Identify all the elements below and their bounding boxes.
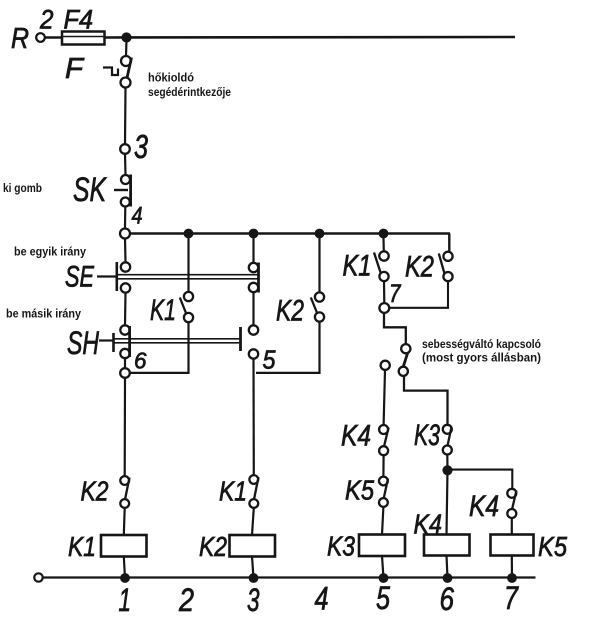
coil K5 (491, 531, 568, 562)
svg-text:2: 2 (178, 582, 194, 618)
junction dot bottom col7 (508, 574, 517, 583)
svg-text:6: 6 (440, 581, 455, 617)
wire bus to contact K1 col5 (382, 238, 384, 251)
contact K1 col3 (219, 475, 259, 508)
annotation sebessegvalto kapcsolo (422, 339, 541, 365)
wire coil K5 to bottom rail (511, 556, 513, 579)
wire coil K2 to bottom rail (252, 557, 254, 579)
svg-text:5: 5 (376, 580, 390, 616)
svg-text:K1: K1 (219, 476, 247, 507)
svg-text:K5: K5 (345, 475, 374, 506)
wire coil K1 to bottom rail (124, 557, 125, 579)
svg-text:K2: K2 (81, 476, 109, 507)
svg-text:SK: SK (73, 171, 107, 209)
svg-text:4: 4 (315, 581, 329, 617)
wire bus corner down to contact K2 col6 (448, 234, 450, 252)
wire selector left position to contact K4 col5 (384, 370, 385, 425)
wire contact K2 col1 to coil K1 (123, 508, 126, 535)
svg-text:6: 6 (134, 348, 147, 374)
node 4 (120, 203, 143, 239)
fuse F4 (62, 5, 105, 45)
svg-text:1: 1 (119, 582, 132, 618)
svg-text:segédérintkezője: segédérintkezője (148, 87, 231, 99)
wire contact K1 col3 to coil K2 (252, 508, 254, 535)
contact K2 col6 (405, 251, 453, 284)
wire node 5 down to contact K1 col3 (252, 359, 255, 475)
svg-text:5: 5 (263, 345, 276, 375)
junction dot bottom col3 (249, 574, 258, 583)
coil K1 (68, 531, 147, 562)
svg-text:K4: K4 (469, 490, 499, 523)
contact K1 col2 (150, 292, 193, 327)
wire SE col3 to SH col3 (252, 292, 254, 325)
junction dot top rail / F branch (122, 33, 131, 42)
wire junction col6 to coil K4 (447, 470, 448, 534)
contact K3 col6 (414, 419, 452, 455)
thermal overload contact F (65, 53, 132, 88)
svg-text:R: R (11, 23, 29, 55)
node 3 (120, 128, 148, 165)
svg-text:7: 7 (389, 280, 401, 308)
junction dot bus col3 (249, 229, 258, 238)
svg-text:K3: K3 (414, 419, 440, 452)
svg-text:K1: K1 (150, 294, 176, 327)
terminal bottom rail (34, 573, 42, 581)
junction dot bus col5 (379, 229, 388, 238)
junction dot bottom col5 (379, 574, 388, 583)
svg-text:SH: SH (67, 325, 100, 361)
wire contact K4 to contact K5 col5 (382, 455, 384, 476)
wire R to fuse (45, 36, 62, 38)
svg-text:be másik irány: be másik irány (6, 309, 82, 321)
node 6 (120, 348, 146, 378)
junction dot col6 (443, 466, 452, 475)
wire coil K3 to bottom rail (382, 556, 384, 578)
svg-text:2: 2 (39, 5, 53, 35)
svg-text:ki gomb: ki gomb (3, 183, 42, 195)
contact K5 col5 (345, 475, 388, 507)
svg-text:K2: K2 (199, 531, 227, 562)
wire coil K4 to bottom rail (447, 556, 448, 579)
wire contact K4 col7 to coil K5 (511, 518, 513, 535)
svg-text:be egyik irány: be egyik irány (14, 247, 87, 259)
contact K1 col5 (343, 250, 389, 283)
junction dot bus col2 (184, 229, 193, 238)
svg-text:(most gyors állásban): (most gyors állásban) (422, 353, 541, 365)
svg-text:K3: K3 (327, 531, 355, 562)
pushbutton SE (65, 261, 259, 294)
wire F to node 3 (124, 88, 127, 145)
coil K2 (199, 531, 275, 562)
wire horizontal bus (130, 232, 450, 234)
wire bus to contact K1 col2 (187, 238, 189, 292)
wire contact K1 col5 to node 7 (383, 281, 385, 303)
svg-text:7: 7 (504, 580, 519, 616)
wire SH to node 6 (124, 358, 126, 368)
pushbutton SK (73, 171, 131, 209)
svg-text:K1: K1 (343, 250, 372, 283)
wire node 6 down to contact K2 col1 (124, 378, 127, 476)
wire SK to node 4 (124, 207, 127, 229)
svg-text:K5: K5 (538, 531, 567, 562)
wire node 3 to SK (124, 154, 127, 175)
pushbutton SH (67, 325, 258, 361)
contact K2 col1 (81, 476, 130, 508)
svg-text:K1: K1 (68, 531, 96, 562)
selector switch speed change (381, 344, 411, 376)
coil K4 (414, 509, 470, 556)
svg-text:SE: SE (65, 261, 95, 294)
wire bus to SE col3 (252, 238, 254, 263)
junction dot bottom col1 (121, 574, 130, 583)
svg-text:sebességváltó kapcsoló: sebességváltó kapcsoló (422, 339, 541, 351)
svg-text:hőkioldó: hőkioldó (148, 73, 194, 85)
svg-text:4: 4 (132, 203, 143, 230)
svg-text:F: F (65, 53, 85, 85)
svg-text:K4: K4 (341, 420, 371, 453)
junction dot bus col4 (315, 229, 324, 238)
wire node 7 to selector (384, 313, 406, 344)
node 7 (379, 280, 401, 313)
svg-text:F4: F4 (64, 5, 94, 35)
wire SE to SH col1 (124, 293, 127, 326)
svg-text:3: 3 (134, 128, 148, 165)
wire node4 to SE (124, 239, 127, 263)
wire contact K2 col6 down to node 7 branch (389, 281, 448, 308)
contact K4 col7 (469, 489, 516, 523)
contact K2 col4 (276, 292, 324, 327)
annotation hokioldo segederintkezoje (148, 73, 231, 100)
wire junction col6 to contact K4 col7 (449, 470, 512, 489)
terminal R (11, 23, 45, 55)
wire junction to contact F (125, 40, 128, 56)
wire contact K5 to coil K3 (382, 507, 383, 535)
svg-text:3: 3 (247, 582, 260, 618)
junction dot bottom col6 (443, 574, 452, 583)
wire contact K2 col4 to col3 (256, 322, 320, 373)
svg-text:K2: K2 (405, 251, 434, 284)
wire contact K1 col2 to node 6 (130, 322, 189, 373)
wire selector to contact K3 col6 (404, 376, 448, 425)
wire top rail (105, 36, 516, 39)
coil K3 (327, 531, 405, 562)
wire bottom rail (43, 576, 536, 578)
wire contact K3 to junction col6 (446, 455, 448, 471)
contact K4 col5 (341, 420, 389, 456)
wire bus to contact K2 col4 (318, 238, 320, 292)
svg-text:K2: K2 (276, 295, 304, 328)
